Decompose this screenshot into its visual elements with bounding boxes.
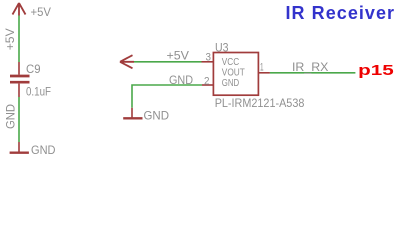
svg-text:GND: GND: [222, 77, 240, 89]
IC U3 body: [213, 53, 258, 96]
capacitor C9: [10, 62, 30, 97]
wire +5V arrow to U3 pin 3: [134, 61, 202, 63]
supply symbol +5V (top-left arrow): [13, 3, 26, 16]
svg-text:C9: C9: [26, 64, 41, 76]
svg-text:GND: GND: [169, 75, 193, 87]
svg-text:0.1uF: 0.1uF: [26, 87, 51, 99]
wire U3 pin 1 to p15 (net IR_RX): [270, 72, 356, 74]
svg-text:U3: U3: [215, 42, 229, 54]
svg-text:GND: GND: [144, 108, 170, 122]
svg-text:1: 1: [260, 62, 264, 74]
svg-text:+5V: +5V: [5, 28, 17, 50]
svg-text:p15: p15: [358, 62, 394, 79]
U3 pin 3: [202, 61, 214, 63]
wire +5V to C9 (vertical, left rail): [18, 16, 20, 63]
ground symbol (bottom-left): [10, 142, 29, 153]
svg-text:2: 2: [204, 75, 210, 87]
svg-text:GND: GND: [31, 143, 56, 157]
supply symbol +5V (middle, left-pointing arrow): [120, 55, 134, 68]
svg-text:+5V: +5V: [31, 7, 52, 19]
svg-text:+5V: +5V: [167, 50, 190, 62]
ground symbol (middle): [123, 108, 142, 119]
wire U3 pin 2 to GND: [132, 85, 202, 108]
svg-text:GND: GND: [6, 104, 18, 129]
U3 pin 2: [202, 84, 213, 86]
svg-text:PL-IRM2121-A538: PL-IRM2121-A538: [215, 96, 305, 110]
svg-text:IR_RX: IR_RX: [292, 62, 329, 74]
U3 pin 1: [259, 72, 270, 74]
svg-text:IR Receiver: IR Receiver: [286, 3, 396, 23]
wire C9 to GND (vertical, left rail): [18, 97, 20, 142]
svg-text:3: 3: [206, 52, 212, 64]
